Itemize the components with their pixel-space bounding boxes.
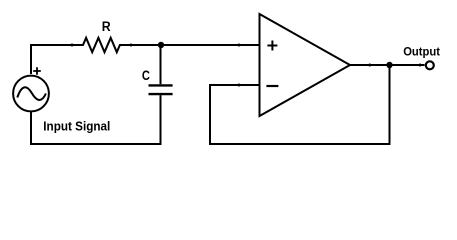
wire: feedback from - input down and around to output node bbox=[210, 65, 390, 144]
svg-text:Input Signal: Input Signal bbox=[43, 119, 110, 134]
AC source V1 bbox=[13, 67, 49, 111]
svg-text:C: C bbox=[142, 68, 150, 83]
capacitor C bbox=[149, 45, 173, 144]
output node junction dot bbox=[386, 62, 392, 68]
svg-text:Output: Output bbox=[403, 45, 440, 59]
wire: resistor to node A bbox=[131, 44, 161, 46]
svg-text:R: R bbox=[102, 19, 111, 34]
wire: op-amp output to terminal bbox=[350, 64, 425, 67]
output terminal circle bbox=[426, 61, 434, 69]
wire: node A to op-amp + input bbox=[161, 44, 260, 47]
node A junction dot bbox=[158, 42, 164, 48]
wire: source top to resistor bbox=[31, 45, 83, 74]
wire: source bottom rail to capacitor bottom bbox=[31, 95, 161, 144]
op-amp U1 bbox=[260, 14, 351, 116]
resistor R bbox=[71, 38, 133, 52]
